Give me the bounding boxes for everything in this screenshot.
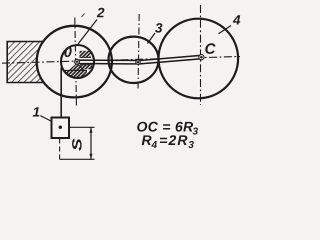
label s xyxy=(72,139,82,151)
fixed-axis support triangle under O xyxy=(70,64,85,71)
gear 2 housing fill xyxy=(37,26,112,98)
label 3 xyxy=(155,23,162,32)
bottom reference line xyxy=(60,158,95,160)
stray mark xyxy=(82,14,85,18)
label 4 xyxy=(233,15,241,24)
weight 1 box xyxy=(52,118,70,139)
equation OC = 6R3 xyxy=(137,122,193,132)
pin C xyxy=(199,55,204,60)
gear 3 rim xyxy=(109,37,159,83)
vertical centerline through O xyxy=(75,18,77,108)
vertical centerline gear 3 xyxy=(138,14,139,91)
drum section hatching xyxy=(62,51,93,78)
pin O xyxy=(75,59,80,64)
label O xyxy=(64,47,71,57)
label 1 xyxy=(33,107,40,116)
leader 3 xyxy=(148,33,156,44)
equation R4 = 2R3 xyxy=(142,135,152,145)
wall (fixed hatched support) xyxy=(7,42,43,83)
label C xyxy=(205,43,215,54)
leader 2 xyxy=(77,20,98,47)
dimension line s xyxy=(90,127,92,159)
crank bar OC xyxy=(78,56,200,64)
label 2 xyxy=(97,8,105,17)
extension line from box xyxy=(69,126,94,128)
gear 4 rim xyxy=(159,19,239,99)
leader 1 xyxy=(40,116,51,122)
leader 4 xyxy=(219,26,232,34)
dashed travel line below weight xyxy=(59,139,61,160)
horizontal centerline O-C xyxy=(2,57,240,64)
gear 2 housing rim xyxy=(37,26,112,98)
vertical centerline gear 4 xyxy=(200,5,202,105)
cord to weight xyxy=(60,68,62,118)
pin at gear 3 centre xyxy=(136,60,140,64)
drum (gear 2) rim xyxy=(61,45,94,78)
